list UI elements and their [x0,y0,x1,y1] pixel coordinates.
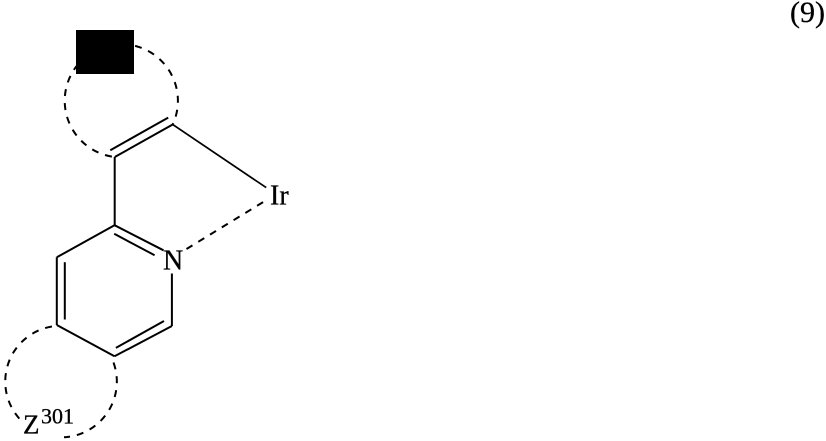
pyridine ring: bond C5-C4 [57,325,115,356]
N-Ir dative dashed bond [187,199,269,249]
vinyl C=C double bond (inner line) [110,118,168,151]
svg-text:301: 301 [41,404,74,429]
svg-text:(9): (9) [790,0,825,29]
bond vinyl C to pyridine C2 [114,157,116,225]
pyridine ring: bond N-C6 (right edge) [171,274,173,327]
svg-text:Z: Z [23,410,40,440]
pyridine ring: bond C2-N (outer) [115,225,164,250]
pyridine ring: bond C6-C5 (outer) [115,326,172,356]
vinyl C=C double bond (outer line) [115,125,173,158]
dashed ring (top, fused at vinyl C=C) [65,44,178,157]
pyridine ring: bond C2-N (inner double line) [114,234,154,255]
pyridine ring: bond C4-C3 (inner double line) [64,262,66,319]
pyridine ring: bond C4-C3 (outer left edge) [56,257,58,325]
C-Ir sigma bond [173,125,267,188]
pyridine ring: bond C3-C2 [57,225,115,257]
svg-text:N: N [163,246,183,277]
svg-text:Ir: Ir [270,181,289,212]
pyridine ring: bond C6-C5 (inner double line) [116,321,164,348]
label Z301 background mask [21,404,65,441]
dashed ring Z301 (bottom, fused at C4-C5) [5,326,117,437]
black square substituent [76,30,134,74]
